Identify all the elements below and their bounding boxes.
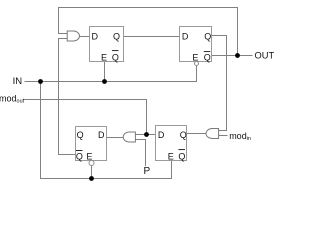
node M: mod_out junction — [144, 132, 149, 137]
and-gate G1 (prescaler feedback AND) — [67, 31, 79, 41]
wire G2 output to latch U3 D — [107, 137, 124, 139]
wire G1 output to latch U1 D — [80, 36, 90, 38]
svg-text:D: D — [92, 31, 99, 41]
wire G1 bottom input from latch U3 Qbar — [59, 39, 76, 155]
svg-text:E: E — [168, 151, 174, 161]
svg-text:IN: IN — [13, 76, 23, 87]
wire latch U4 Q to AND G3 tip — [187, 133, 207, 135]
svg-text:E: E — [101, 52, 107, 62]
svg-text:Q: Q — [76, 151, 83, 161]
node: bottom rail junction at U3 E — [89, 176, 94, 181]
svg-text:D: D — [182, 31, 189, 41]
latch U2 (top-right D latch) — [180, 27, 212, 66]
and-gate G3 (mod_in AND, points left) — [206, 129, 219, 139]
wire latch U1 E down to IN line — [104, 62, 106, 82]
wire IN line to latch U2 E bubble — [25, 65, 197, 81]
svg-text:Q: Q — [77, 130, 84, 140]
svg-text:E: E — [192, 52, 198, 62]
node: latch U1 E junction on IN line — [102, 79, 107, 84]
wire latch U2 Q down to AND G3 top input — [212, 36, 227, 131]
svg-text:Q: Q — [180, 130, 187, 140]
node: IN tap junction — [38, 79, 43, 84]
svg-text:Q: Q — [112, 52, 119, 62]
svg-text:D: D — [158, 130, 165, 140]
wire G3 bottom port to mod_in label — [219, 135, 228, 137]
and-gate G2 (mod/P AND, points left, output to U3 D) — [123, 132, 135, 142]
wire P up to G2 bottom input — [135, 140, 145, 167]
wire IN tap down to bottom rail and up to latch U4 E — [41, 82, 172, 179]
svg-text:Q: Q — [178, 151, 185, 161]
bubble latch U3 E (active-low enable) — [89, 161, 94, 166]
latch U3 (bottom-left mirrored D latch) — [76, 127, 107, 166]
node: OUT junction (U2 Qbar / feedback) — [235, 53, 240, 58]
svg-text:D: D — [98, 130, 105, 140]
wire latch U1 Q to latch U2 D — [124, 36, 180, 38]
latch U1 (top-left D latch) — [90, 27, 124, 63]
svg-text:P: P — [144, 166, 151, 177]
svg-text:Q: Q — [113, 31, 120, 41]
wire mod_out line down to node M — [23, 100, 147, 135]
wire latch U2 Qbar to OUT node — [212, 55, 253, 57]
wire node M to G2 top input and latch U4 D — [135, 134, 155, 136]
bubble latch U2 E (active-low enable) — [195, 62, 199, 66]
svg-text:OUT: OUT — [255, 50, 275, 60]
wire latch U3 E bubble down to bottom rail — [91, 166, 93, 179]
latch U4 (bottom-right D latch) — [156, 126, 187, 162]
wire top feedback rail from OUT node to AND G1 top input — [59, 8, 238, 56]
svg-text:E: E — [86, 151, 92, 161]
svg-text:Q: Q — [204, 31, 211, 41]
svg-text:Q: Q — [204, 52, 211, 62]
